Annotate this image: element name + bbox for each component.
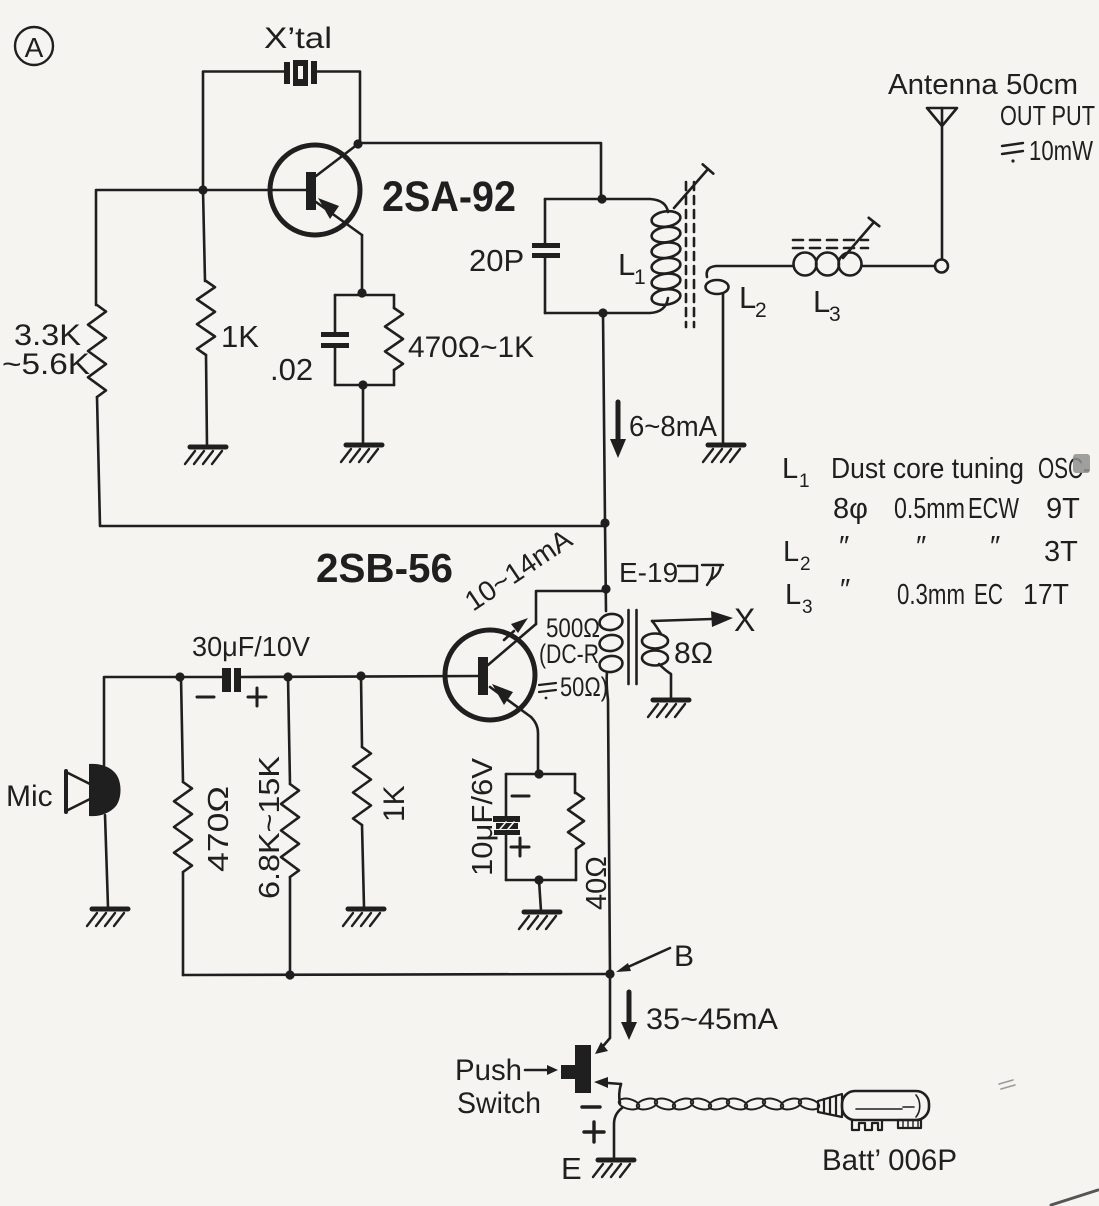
node collector junction Q2: [601, 584, 610, 593]
svg-text:1K: 1K: [378, 785, 411, 822]
resistor R6 6.8K~15K: [288, 677, 290, 784]
inductor L3: [794, 253, 862, 276]
ground under .02 combo: [346, 443, 382, 448]
ground E: [598, 1158, 634, 1163]
svg-text:B: B: [674, 940, 694, 973]
svg-text:30μF/10V: 30μF/10V: [192, 631, 310, 662]
svg-text:50Ω): 50Ω): [560, 672, 608, 702]
svg-text:35~45mA: 35~45mA: [646, 1003, 778, 1036]
svg-text:3: 3: [829, 303, 841, 326]
wire cap .02 branch top: [334, 295, 337, 332]
label plus battery: [584, 1122, 604, 1142]
svg-text:Dust core tuning: Dust core tuning: [831, 453, 1024, 485]
label 500ohm: [539, 613, 600, 669]
svg-text:10μF/6V: 10μF/6V: [467, 757, 499, 876]
svg-text:Switch: Switch: [457, 1087, 541, 1120]
wire crystal left to base column: [203, 72, 284, 191]
inductor L1: [651, 209, 682, 306]
resistor R7 1K: [361, 676, 362, 747]
wire combo bottom to ground: [362, 385, 365, 444]
transformer secondary 8ohm: [642, 621, 671, 699]
current arrow 10~14mA: [504, 618, 528, 640]
svg-text:470Ω: 470Ω: [203, 786, 235, 872]
wire combo bottom rail: [335, 384, 394, 387]
svg-text:1: 1: [634, 266, 646, 289]
svg-text:L: L: [783, 536, 799, 568]
svg-text:2SA-92: 2SA-92: [382, 173, 516, 221]
label plus cap2: [511, 838, 529, 856]
transistor Q2 2SB-56: [445, 591, 606, 774]
svg-text:2: 2: [755, 299, 767, 322]
node combo bottom: [358, 380, 367, 389]
wire emitter Q1 down: [361, 235, 364, 293]
table L2 row: [783, 531, 1078, 575]
tuning arrow L3: [843, 218, 879, 258]
svg-text:L: L: [618, 247, 635, 282]
svg-text:6.8K~15K: 6.8K~15K: [254, 755, 286, 899]
ground under combo2: [524, 910, 560, 915]
node 6.8K top: [283, 672, 292, 681]
transformer primary 500ohm: [598, 612, 623, 673]
wire combo top rail: [335, 294, 394, 297]
resistor R8 40ohm: [574, 774, 577, 793]
wire combo2 top rail: [506, 773, 575, 776]
resistor R3 470ohm~1K: [385, 308, 403, 370]
wire battery plus to E ground: [614, 1108, 622, 1157]
transformer core: [629, 610, 637, 684]
ground under mic: [92, 907, 128, 912]
battery connector: [818, 1094, 842, 1117]
node emitter combo top: [357, 288, 366, 297]
wire B junction to switch: [604, 974, 610, 1045]
svg-text:″: ″: [916, 531, 926, 563]
wire 3.3K bottom to return rail: [97, 397, 605, 526]
node 1K top: [356, 671, 365, 680]
svg-text:10mW: 10mW: [1029, 135, 1093, 166]
wire L3 to antenna node: [862, 265, 935, 268]
transistor Q1 2SA-92: [270, 144, 362, 235]
node 470 top: [175, 672, 184, 681]
label minus cap2: [512, 795, 529, 798]
node tank bottom: [598, 308, 607, 317]
wire base Q1: [203, 189, 306, 192]
svg-text:L: L: [785, 579, 801, 611]
wire combo2 left lower: [505, 835, 508, 880]
svg-text:0.3mm: 0.3mm: [897, 579, 965, 611]
svg-text:″: ″: [839, 531, 849, 563]
wire base junction down to R 1K: [203, 190, 205, 281]
resistor R2 1K: [197, 281, 215, 355]
wire bottom B rail: [183, 974, 610, 975]
svg-text:17T: 17T: [1023, 579, 1069, 611]
node tank top: [597, 194, 606, 203]
svg-text:X’tal: X’tal: [264, 22, 332, 55]
svg-text:20P: 20P: [469, 243, 524, 278]
capacitor 10uF/6V: [493, 816, 520, 835]
svg-text:E-19: E-19: [619, 557, 678, 588]
core dashed lines L1/L2: [686, 182, 694, 327]
svg-text:10~14mA: 10~14mA: [459, 523, 578, 617]
svg-text:3T: 3T: [1044, 536, 1078, 568]
node combo2 bottom: [534, 875, 543, 884]
crystal X1: [284, 60, 317, 86]
svg-text:(DC-R: (DC-R: [539, 639, 599, 669]
svg-text:″: ″: [840, 574, 850, 606]
wire tank left side: [544, 199, 547, 243]
resistor 470ohm~1K leads: [393, 295, 396, 385]
svg-text:L: L: [782, 453, 798, 485]
label minus: [197, 696, 214, 699]
svg-text:L: L: [739, 280, 756, 315]
svg-text:A: A: [25, 32, 44, 63]
label minus battery: [582, 1105, 600, 1108]
capacitor 20P: [532, 243, 560, 258]
label approx 10mW: [1002, 143, 1023, 163]
inductor L2: [707, 266, 793, 277]
core dashed lines L3: [793, 240, 868, 248]
node A (circled figure label): [15, 27, 53, 65]
svg-text:Mic: Mic: [6, 780, 53, 813]
label Push with arrow: [455, 1054, 558, 1087]
resistor 3.3K~5.6K: [88, 305, 106, 397]
svg-text:8Ω: 8Ω: [674, 637, 713, 670]
svg-text:Batt’ 006P: Batt’ 006P: [822, 1144, 957, 1177]
switch lower arrow: [594, 1077, 621, 1103]
wire combo2 to ground: [539, 880, 541, 911]
resistor R5 470ohm: [181, 677, 183, 782]
node emitter combo top Q2: [534, 769, 543, 778]
table L1 row 2: [833, 493, 1080, 525]
current arrow 6~8mA: [610, 402, 626, 458]
svg-text:E: E: [561, 1151, 582, 1186]
katakana ko-a: [678, 565, 723, 585]
svg-text:9T: 9T: [1046, 493, 1080, 525]
scan artifact marks: [999, 1080, 1015, 1089]
wire X output with arrow: [652, 611, 733, 627]
wire 1K to ground: [206, 355, 207, 446]
table L1 row: [782, 453, 1090, 492]
wire mic to ground: [105, 815, 108, 907]
wire base rail right of cap: [241, 676, 478, 677]
wire base rail left of cap: [104, 677, 223, 765]
svg-text:8φ: 8φ: [833, 493, 868, 525]
svg-text:2: 2: [800, 554, 811, 575]
wire collector node to tank top: [358, 143, 601, 199]
battery body 006P: [842, 1091, 929, 1120]
svg-text:L: L: [813, 284, 830, 319]
label plus: [248, 688, 266, 706]
wire tank left lower: [544, 258, 547, 313]
capacitor C2 .02: [321, 332, 349, 348]
node collector junction Q1: [353, 139, 362, 148]
svg-text:6~8mA: 6~8mA: [629, 411, 718, 443]
svg-text:2SB-56: 2SB-56: [316, 545, 453, 591]
svg-text:0.5mm: 0.5mm: [894, 493, 965, 525]
tuning arrow L1: [674, 164, 713, 208]
wire primary bottom down to B rail: [607, 672, 610, 974]
ground under L2: [708, 443, 744, 448]
wire base to left column: [96, 190, 203, 305]
current arrow 35~45mA: [621, 992, 637, 1040]
wire tank top rail: [545, 199, 668, 212]
wire tank bottom down to transformer: [603, 313, 606, 611]
node base junction Q1: [198, 185, 207, 194]
node antenna terminal: [935, 260, 948, 273]
node B junction: [605, 969, 614, 978]
antenna: [927, 108, 957, 259]
wire combo2 left side: [505, 774, 508, 816]
wire cap .02 branch bottom: [334, 348, 337, 385]
microphone Mic: [66, 764, 121, 816]
svg-text:X: X: [734, 602, 755, 638]
label E-19 core: [619, 557, 678, 588]
battery snap terminals: [852, 1120, 921, 1130]
table L3 row: [785, 574, 1069, 618]
wire crystal right down to collector node: [316, 72, 360, 145]
wire combo2 bottom rail: [506, 879, 576, 882]
twisted pair battery leads: [618, 1097, 821, 1112]
push switch: [561, 1045, 591, 1093]
svg-text:3: 3: [802, 597, 813, 618]
node 6.8K bottom: [285, 970, 294, 979]
svg-text:1: 1: [799, 471, 810, 492]
ground under 8ohm: [653, 698, 689, 703]
capacitor 30uF/10V: [222, 668, 241, 692]
svg-text:Push: Push: [455, 1054, 522, 1087]
svg-text:ECW: ECW: [968, 493, 1019, 525]
svg-text:~5.6K: ~5.6K: [2, 348, 90, 381]
svg-text:OUT PUT: OUT PUT: [1000, 100, 1095, 131]
svg-text:EC: EC: [974, 579, 1003, 611]
node return rail junction: [600, 518, 609, 527]
svg-text:470Ω~1K: 470Ω~1K: [408, 331, 534, 364]
ground under 1K stage2: [348, 907, 384, 912]
svg-text:.02: .02: [270, 352, 313, 387]
svg-text:″: ″: [990, 531, 1000, 563]
label B with arrow: [616, 940, 694, 973]
svg-text:1K: 1K: [221, 319, 259, 354]
wire tank bottom rail: [545, 298, 668, 313]
svg-text:Antenna 50cm: Antenna 50cm: [888, 69, 1078, 101]
ground under 1K: [190, 445, 226, 450]
